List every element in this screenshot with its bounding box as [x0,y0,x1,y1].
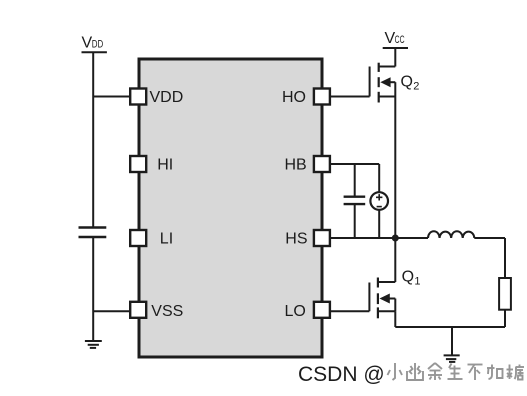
svg-text:VSS: VSS [151,303,183,320]
svg-text:CC: CC [395,34,405,46]
svg-text:HI: HI [157,157,173,174]
svg-text:HO: HO [282,89,306,106]
svg-text:2: 2 [413,81,419,93]
svg-text:LI: LI [160,231,173,248]
svg-text:DD: DD [92,39,104,51]
svg-text:VDD: VDD [150,89,184,106]
svg-text:Q: Q [402,269,414,286]
svg-text:LO: LO [284,303,305,320]
svg-text:CSDN @: CSDN @ [298,363,385,386]
svg-text:Q: Q [401,74,413,91]
svg-text:1: 1 [414,276,420,288]
svg-text:HB: HB [284,157,306,174]
svg-text:HS: HS [285,231,307,248]
